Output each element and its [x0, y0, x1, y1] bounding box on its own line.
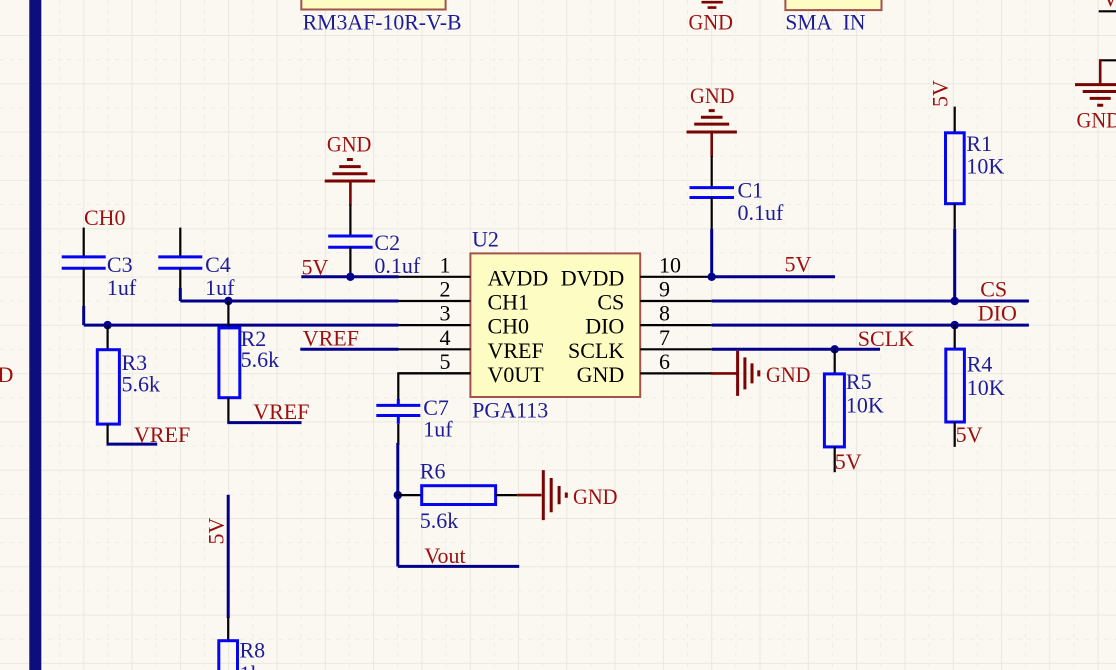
- svg-text:GND: GND: [689, 10, 734, 35]
- svg-text:1uf: 1uf: [423, 417, 453, 442]
- power ground GND (above C2): [325, 131, 375, 205]
- wire R4 bottom: [954, 422, 956, 447]
- svg-text:U2: U2: [472, 226, 499, 251]
- svg-text:10K: 10K: [967, 375, 1005, 400]
- junction (C2 / 5V rail): [346, 273, 354, 281]
- svg-text:0.1uf: 0.1uf: [738, 200, 785, 225]
- capacitor C4: [158, 252, 235, 300]
- wire pin5 corner: [398, 373, 470, 400]
- svg-text:PGA113: PGA113: [472, 397, 548, 422]
- svg-text:SCLK: SCLK: [568, 338, 624, 363]
- svg-text:GND: GND: [573, 484, 618, 509]
- svg-text:10K: 10K: [846, 392, 884, 417]
- svg-text:GND: GND: [327, 131, 372, 156]
- svg-text:5V: 5V: [928, 80, 953, 107]
- svg-text:7: 7: [659, 325, 670, 350]
- power ground GND (above C1): [687, 83, 737, 157]
- wire CH1 row to pin 2: [180, 300, 398, 303]
- junction (R1 / CS): [951, 297, 959, 305]
- pin (top right, lower): [1100, 59, 1116, 61]
- svg-text:4: 4: [440, 325, 451, 350]
- svg-text:DIO: DIO: [978, 301, 1017, 326]
- svg-text:VREF: VREF: [134, 422, 190, 447]
- wire R5 bottom: [834, 447, 836, 472]
- svg-text:CS: CS: [597, 290, 624, 315]
- connector J? body (clipped at top): [301, 0, 445, 10]
- wire C3 bottom: [83, 268, 85, 308]
- svg-text:1uf: 1uf: [205, 275, 235, 300]
- junction (R5 / SCLK): [831, 345, 839, 353]
- junction (R6 tap): [394, 491, 402, 499]
- wire Vout stub: [398, 565, 519, 568]
- wire SCLK row: [712, 348, 880, 351]
- svg-text:D: D: [0, 362, 13, 387]
- pin 9 (right): [640, 300, 712, 302]
- wire 5V vertical (bottom): [227, 495, 230, 618]
- pin 10 (right): [640, 276, 712, 278]
- power ground (top center, clipped): [689, 2, 734, 34]
- svg-text:GND: GND: [1077, 108, 1116, 133]
- wire 5V to pin 1: [301, 275, 398, 278]
- junction (R2 tap): [224, 297, 232, 305]
- svg-text:RM3AF-10R-V-B: RM3AF-10R-V-B: [303, 10, 462, 35]
- svg-text:1: 1: [440, 252, 451, 277]
- svg-text:3: 3: [440, 301, 451, 326]
- svg-text:5.6k: 5.6k: [420, 508, 459, 533]
- svg-text:V: V: [1103, 0, 1116, 11]
- svg-text:R6: R6: [420, 459, 446, 484]
- svg-text:5V: 5V: [785, 251, 812, 276]
- svg-text:9: 9: [659, 277, 670, 302]
- svg-text:C2: C2: [374, 230, 400, 255]
- wire C1 bottom: [711, 198, 713, 230]
- resistor R6: [397, 459, 496, 534]
- pin 7 (right): [640, 348, 712, 350]
- svg-text:GND: GND: [577, 362, 625, 387]
- junction (C1 / pin 10): [708, 273, 716, 281]
- wire CH0 row to pin 3: [84, 324, 399, 327]
- pin 3 (left): [399, 324, 471, 326]
- svg-text:10: 10: [659, 252, 681, 277]
- svg-text:R1: R1: [966, 131, 992, 156]
- svg-text:10K: 10K: [966, 153, 1004, 178]
- sheet border bar: [29, 0, 41, 670]
- svg-text:2: 2: [440, 277, 451, 302]
- resistor R1: [946, 107, 1005, 204]
- svg-text:5V: 5V: [835, 449, 862, 474]
- connector SMA body (clipped at top): [785, 0, 881, 10]
- svg-text:VREF: VREF: [488, 338, 544, 363]
- wire Vout vertical: [396, 443, 399, 567]
- svg-text:8: 8: [659, 301, 670, 326]
- junction (R3 tap): [103, 321, 111, 329]
- wire R6 right: [496, 494, 517, 496]
- op-amp U2 PGA113 body: [470, 253, 640, 397]
- wire C4 top stub: [179, 228, 181, 258]
- power ground GND (pin 6): [711, 351, 811, 396]
- wire C7 bottom: [397, 424, 399, 445]
- svg-text:5: 5: [440, 349, 451, 374]
- wire C2 bottom: [349, 247, 351, 276]
- svg-text:CS: CS: [980, 276, 1007, 301]
- pin 1 (left): [399, 276, 471, 278]
- svg-text:5.6k: 5.6k: [122, 371, 161, 396]
- wire C4 bottom: [179, 268, 181, 290]
- wire 5V from pin 10: [712, 275, 835, 278]
- svg-text:0.1uf: 0.1uf: [374, 253, 421, 278]
- capacitor C1: [690, 177, 785, 225]
- svg-text:R4: R4: [967, 352, 993, 377]
- pin (top right, upper): [1099, 10, 1116, 12]
- wire R2 bottom: [227, 398, 229, 423]
- power ground GND (top right): [1075, 59, 1116, 132]
- pin 8 (right): [640, 324, 712, 326]
- junction (R4 / DIO): [951, 321, 959, 329]
- svg-text:1k: 1k: [240, 661, 262, 670]
- wire C2 top: [349, 205, 351, 237]
- svg-text:C4: C4: [205, 252, 231, 277]
- svg-text:CH0: CH0: [84, 205, 126, 230]
- resistor R8 (clipped at bottom): [219, 617, 265, 670]
- svg-text:VREF: VREF: [253, 399, 309, 424]
- resistor R5: [824, 349, 884, 447]
- wire DIO row: [712, 324, 1029, 327]
- svg-text:C1: C1: [738, 177, 764, 202]
- wire R1 bottom: [954, 204, 956, 229]
- capacitor C2: [328, 230, 421, 278]
- svg-text:5V: 5V: [204, 518, 229, 545]
- svg-text:VREF: VREF: [303, 325, 359, 350]
- resistor R3: [97, 325, 160, 424]
- svg-text:SCLK: SCLK: [858, 326, 914, 351]
- resistor R4: [946, 325, 1005, 422]
- capacitor C3: [62, 252, 137, 300]
- wire CS row: [712, 300, 1029, 303]
- svg-text:V0UT: V0UT: [488, 362, 545, 387]
- svg-text:Vout: Vout: [424, 543, 465, 568]
- wire C1 top: [711, 156, 713, 189]
- svg-text:DIO: DIO: [585, 314, 624, 339]
- wire R3 bottom: [106, 424, 108, 444]
- svg-text:AVDD: AVDD: [488, 265, 549, 290]
- svg-text:DVDD: DVDD: [561, 265, 625, 290]
- svg-text:1uf: 1uf: [107, 275, 137, 300]
- svg-text:SMA IN: SMA IN: [785, 10, 865, 35]
- svg-text:5.6k: 5.6k: [241, 347, 280, 372]
- svg-text:GND: GND: [766, 362, 811, 387]
- svg-text:GND: GND: [690, 83, 735, 108]
- svg-text:R5: R5: [846, 369, 872, 394]
- svg-text:5V: 5V: [956, 422, 983, 447]
- svg-text:CH1: CH1: [488, 290, 530, 315]
- svg-text:R8: R8: [240, 638, 266, 663]
- pin 2 (left): [399, 300, 471, 302]
- capacitor C7: [376, 395, 453, 442]
- svg-text:CH0: CH0: [488, 314, 530, 339]
- svg-text:C3: C3: [107, 252, 133, 277]
- wire VREF to pin 4: [300, 348, 398, 351]
- power ground GND (right of R6): [517, 470, 617, 520]
- svg-text:6: 6: [659, 349, 670, 374]
- wire CH0 stub: [83, 228, 85, 258]
- resistor R2: [219, 301, 279, 398]
- pin 5 (left): [399, 372, 471, 374]
- pin 6 (right): [640, 372, 712, 374]
- pin 4 (left): [399, 348, 471, 350]
